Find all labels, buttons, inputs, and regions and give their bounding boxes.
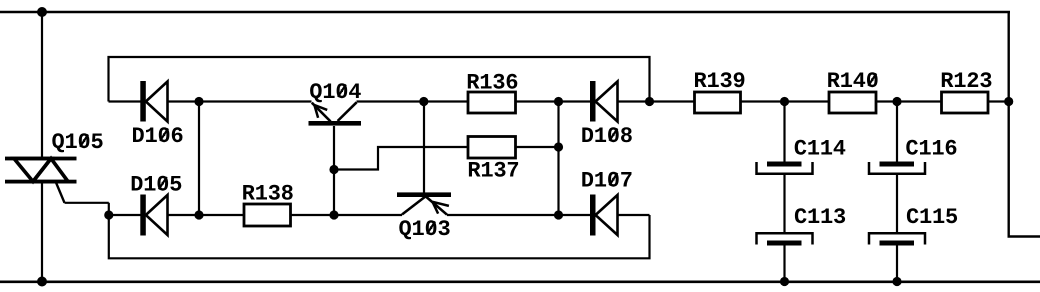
resistor R138 [244,204,291,226]
label R123 [942,72,992,87]
wire upper seg4 [516,100,591,102]
label D107 [582,172,631,187]
junction D108 right [645,97,654,106]
diode D106 [140,81,167,122]
label R139 [695,72,744,87]
wire cap rail1 c [783,246,785,282]
label D106 [133,127,183,142]
wire left rail lower segment [41,183,43,282]
label R140 [828,72,877,87]
wire cap rail2 c [896,246,898,282]
resistor R140 [829,92,876,113]
wire lower seg1 [109,214,141,216]
junction D105 right [194,210,203,219]
diode D107 [590,195,618,236]
junction bottom-left rail [37,277,47,287]
label D105 [132,176,182,191]
wire R136 right vertical [557,102,559,216]
label R137 [469,162,518,177]
wire upper seg7 [876,100,942,102]
wire D106 branch vertical [198,102,200,216]
wire gate horizontal [65,202,109,204]
wire upper seg3 [357,100,469,102]
wire cap rail2 b [896,175,898,233]
wire lower seg5 [618,214,650,216]
wire lower seg2 [168,214,245,216]
wire Q103 base vertical [423,102,425,193]
wire lower seg4 [447,214,590,216]
label C116 [906,140,956,155]
junction Q103 base top [419,97,428,106]
wire bottom bus [0,280,1040,283]
label Q104 [310,83,361,102]
label Q103 [399,220,449,239]
resistor R123 [942,92,989,113]
wire right rail [1009,12,1040,237]
wire left rail upper segment [41,12,43,157]
transistor Q104 [309,102,362,125]
label C113 [795,208,845,223]
junction top-left rail [37,7,47,17]
transistor Q103 [397,192,451,214]
wire cap rail1 a [783,102,785,163]
junction gate node [104,210,113,219]
resistor R137 [468,137,516,159]
wire lower seg3 [291,214,403,216]
junction R140 right [892,97,901,106]
wire cap rail1 b [783,175,785,233]
triac Q105 [5,157,77,203]
junction R136 right [554,97,563,106]
wire upper seg2 [168,100,312,102]
wire upper seg5 [618,100,695,102]
diode D108 [590,81,618,122]
label D108 [582,127,632,142]
junction step node [329,165,338,174]
wire step to R137 [334,147,468,170]
wire inner loop top [109,57,650,102]
label Q105 [52,133,102,152]
label C115 [907,208,957,223]
junction R123 right [1004,97,1013,106]
junction Q104 base bottom [329,210,338,219]
wire upper seg1 [109,100,141,102]
resistor R136 [468,92,516,113]
junction D106 right [194,97,203,106]
wire Q104 base vertical [333,126,335,215]
diode D105 [140,195,167,236]
wire top bus [0,11,1010,14]
wire inner loop bottom [109,203,650,258]
wire R137 right [516,146,559,148]
capacitor C113 [757,233,813,245]
wire cap rail2 a [896,102,898,163]
junction R137 right [554,142,563,151]
capacitor C114 [757,162,813,174]
junction lower mid [554,210,563,219]
wire upper seg8 [988,100,1009,102]
resistor R139 [695,92,741,113]
capacitor C115 [869,233,925,245]
junction cap rail1 bottom [780,277,789,286]
capacitor C116 [869,162,925,174]
label R136 [468,74,518,89]
junction cap rail2 bottom [892,277,901,286]
label R138 [243,185,293,200]
label C114 [795,140,846,155]
wire upper seg6 [741,100,830,102]
junction R139 right [780,97,789,106]
